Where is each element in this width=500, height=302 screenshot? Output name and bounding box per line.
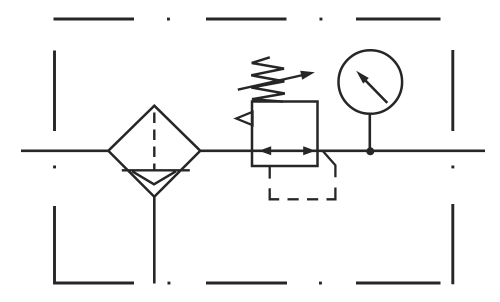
enclosure right border dash 2 bbox=[451, 204, 454, 284]
wire: gauge stem bbox=[368, 113, 371, 151]
regulator R1 adjustment arrowhead bbox=[300, 71, 315, 80]
regulator R1 flow arrowhead right bbox=[303, 146, 315, 155]
enclosure right border dash 1 bbox=[451, 50, 454, 131]
regulator R1 flow arrowhead left bbox=[259, 146, 271, 155]
enclosure right border dot bbox=[451, 166, 454, 169]
enclosure left border dash 2 with bottom-left corner bbox=[55, 206, 135, 283]
regulator R1 pilot line dash to box bottom bbox=[269, 166, 271, 179]
regulator R1 pilot line dashed right corner bbox=[327, 188, 336, 200]
regulator R1 adjustment spring bbox=[251, 57, 284, 101]
enclosure left border dot bbox=[53, 166, 56, 169]
enclosure top border dash 1 bbox=[54, 18, 135, 21]
enclosure top border dot 1 bbox=[167, 18, 170, 21]
filter F1 drain vee bbox=[132, 171, 176, 184]
enclosure top border dash 2 bbox=[206, 18, 287, 21]
regulator R1 pilot line dashed left corner bbox=[270, 188, 280, 199]
enclosure top border dash 3 bbox=[356, 18, 441, 21]
filter F1 dashed center element bbox=[153, 113, 155, 171]
regulator R1 adjustment arrow shaft bbox=[238, 75, 303, 90]
enclosure top border dot 2 bbox=[320, 18, 323, 21]
filter F1 separator chord bbox=[122, 169, 190, 171]
regulator R1 relief vent triangle bbox=[236, 112, 252, 125]
filter F1 diamond body bbox=[108, 106, 200, 197]
node: gauge tap junction bbox=[366, 147, 374, 155]
enclosure bottom border dash 2 bbox=[206, 282, 287, 285]
regulator R1 pilot line dash bbox=[288, 198, 299, 200]
enclosure bottom border dash 3 bbox=[356, 282, 441, 285]
regulator R1 body box bbox=[252, 102, 318, 167]
pressure gauge G1 dial circle bbox=[339, 50, 403, 114]
wire: main air line inlet segment bbox=[21, 149, 109, 152]
regulator R1 pilot line diagonal from outlet bbox=[323, 151, 336, 177]
wire: main air line from filter to outlet bbox=[200, 149, 485, 152]
wire: filter drain line bbox=[153, 197, 156, 284]
pressure gauge G1 needle arrowhead bbox=[356, 71, 369, 84]
enclosure left border dash 1 bbox=[53, 51, 56, 132]
pressure gauge G1 needle shaft bbox=[365, 80, 387, 103]
enclosure bottom border dot 1 bbox=[168, 282, 171, 285]
regulator R1 pilot line dash bbox=[307, 198, 318, 200]
enclosure bottom border dot 2 bbox=[319, 282, 322, 285]
